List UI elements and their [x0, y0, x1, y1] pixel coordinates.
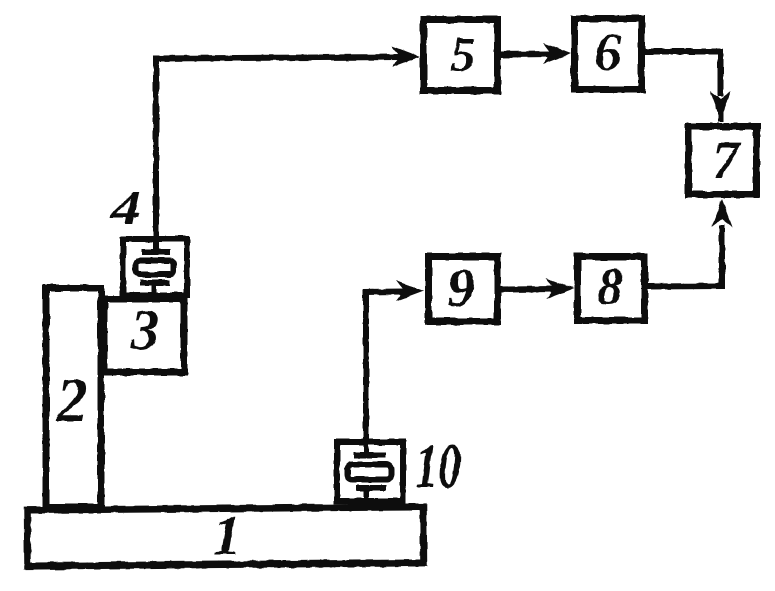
svg-text:2: 2	[56, 367, 88, 435]
wire block6 to block7 vertical	[718, 49, 724, 96]
wire transducer10 to block9 horizontal	[363, 289, 406, 296]
block 8	[578, 257, 645, 321]
arrowhead into block9	[396, 281, 424, 302]
wire transducer4 to block5 vertical	[153, 59, 159, 250]
transducer 10 crystal	[348, 465, 392, 480]
arrowhead into block5	[392, 46, 420, 67]
transducer 10 top electrode	[354, 452, 386, 458]
svg-text:8: 8	[597, 259, 623, 316]
wire block8 to block7 horizontal	[647, 283, 722, 290]
svg-text:4: 4	[110, 182, 141, 235]
arrowhead into block7 top	[710, 91, 731, 119]
svg-text:6: 6	[595, 22, 622, 82]
block 3	[104, 299, 184, 372]
arrowhead into block7 bottom	[712, 199, 733, 227]
transducer 10 top lead	[364, 442, 369, 452]
block 6	[575, 19, 642, 90]
svg-text:5: 5	[451, 26, 476, 82]
wire block9 to block8	[500, 286, 555, 293]
wire block6 to block7 horizontal	[644, 49, 721, 55]
svg-text:9: 9	[448, 258, 475, 318]
transducer 10 body	[337, 442, 403, 501]
transducer 4 crystal	[136, 261, 174, 275]
transducer 4 top electrode	[142, 249, 170, 255]
svg-text:7: 7	[713, 130, 742, 190]
wire block5 to block6	[500, 51, 552, 58]
wire transducer4 to block5 horizontal	[153, 57, 402, 59]
block 9	[429, 257, 498, 322]
arrowhead into block8	[546, 278, 574, 299]
base plate 1	[27, 507, 423, 566]
wire transducer10 to block9 vertical	[363, 292, 369, 445]
transducer 4 bottom electrode	[140, 280, 170, 286]
transducer 4 bottom lead	[152, 283, 157, 297]
svg-text:1: 1	[213, 505, 241, 567]
svg-text:10: 10	[415, 430, 461, 501]
wire block8 to block7 vertical	[719, 225, 725, 289]
block 7	[689, 127, 757, 195]
arrowhead into block6	[543, 43, 571, 64]
stub into block7 top	[718, 108, 723, 122]
block 5	[424, 20, 498, 91]
transducer 4 body	[123, 239, 187, 295]
column 2	[46, 288, 101, 507]
transducer 10 bottom electrode	[356, 485, 386, 491]
transducer 10 bottom lead	[364, 488, 369, 503]
svg-text:3: 3	[130, 299, 160, 362]
